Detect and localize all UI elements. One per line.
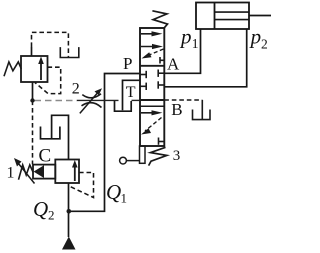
svg-text:Q: Q <box>33 197 48 221</box>
svg-text:P: P <box>123 54 132 73</box>
svg-text:p: p <box>249 25 262 49</box>
svg-text:B: B <box>171 100 182 119</box>
svg-text:T: T <box>126 84 136 101</box>
svg-text:Q: Q <box>106 180 121 204</box>
svg-text:1: 1 <box>7 165 15 182</box>
svg-text:C: C <box>39 146 52 167</box>
svg-text:1: 1 <box>192 36 199 51</box>
svg-text:A: A <box>167 55 180 74</box>
svg-text:1: 1 <box>121 191 128 206</box>
svg-text:2: 2 <box>261 37 268 52</box>
svg-text:2: 2 <box>48 208 55 223</box>
svg-text:2: 2 <box>72 81 80 98</box>
svg-text:3: 3 <box>173 148 181 164</box>
svg-text:p: p <box>179 25 192 49</box>
